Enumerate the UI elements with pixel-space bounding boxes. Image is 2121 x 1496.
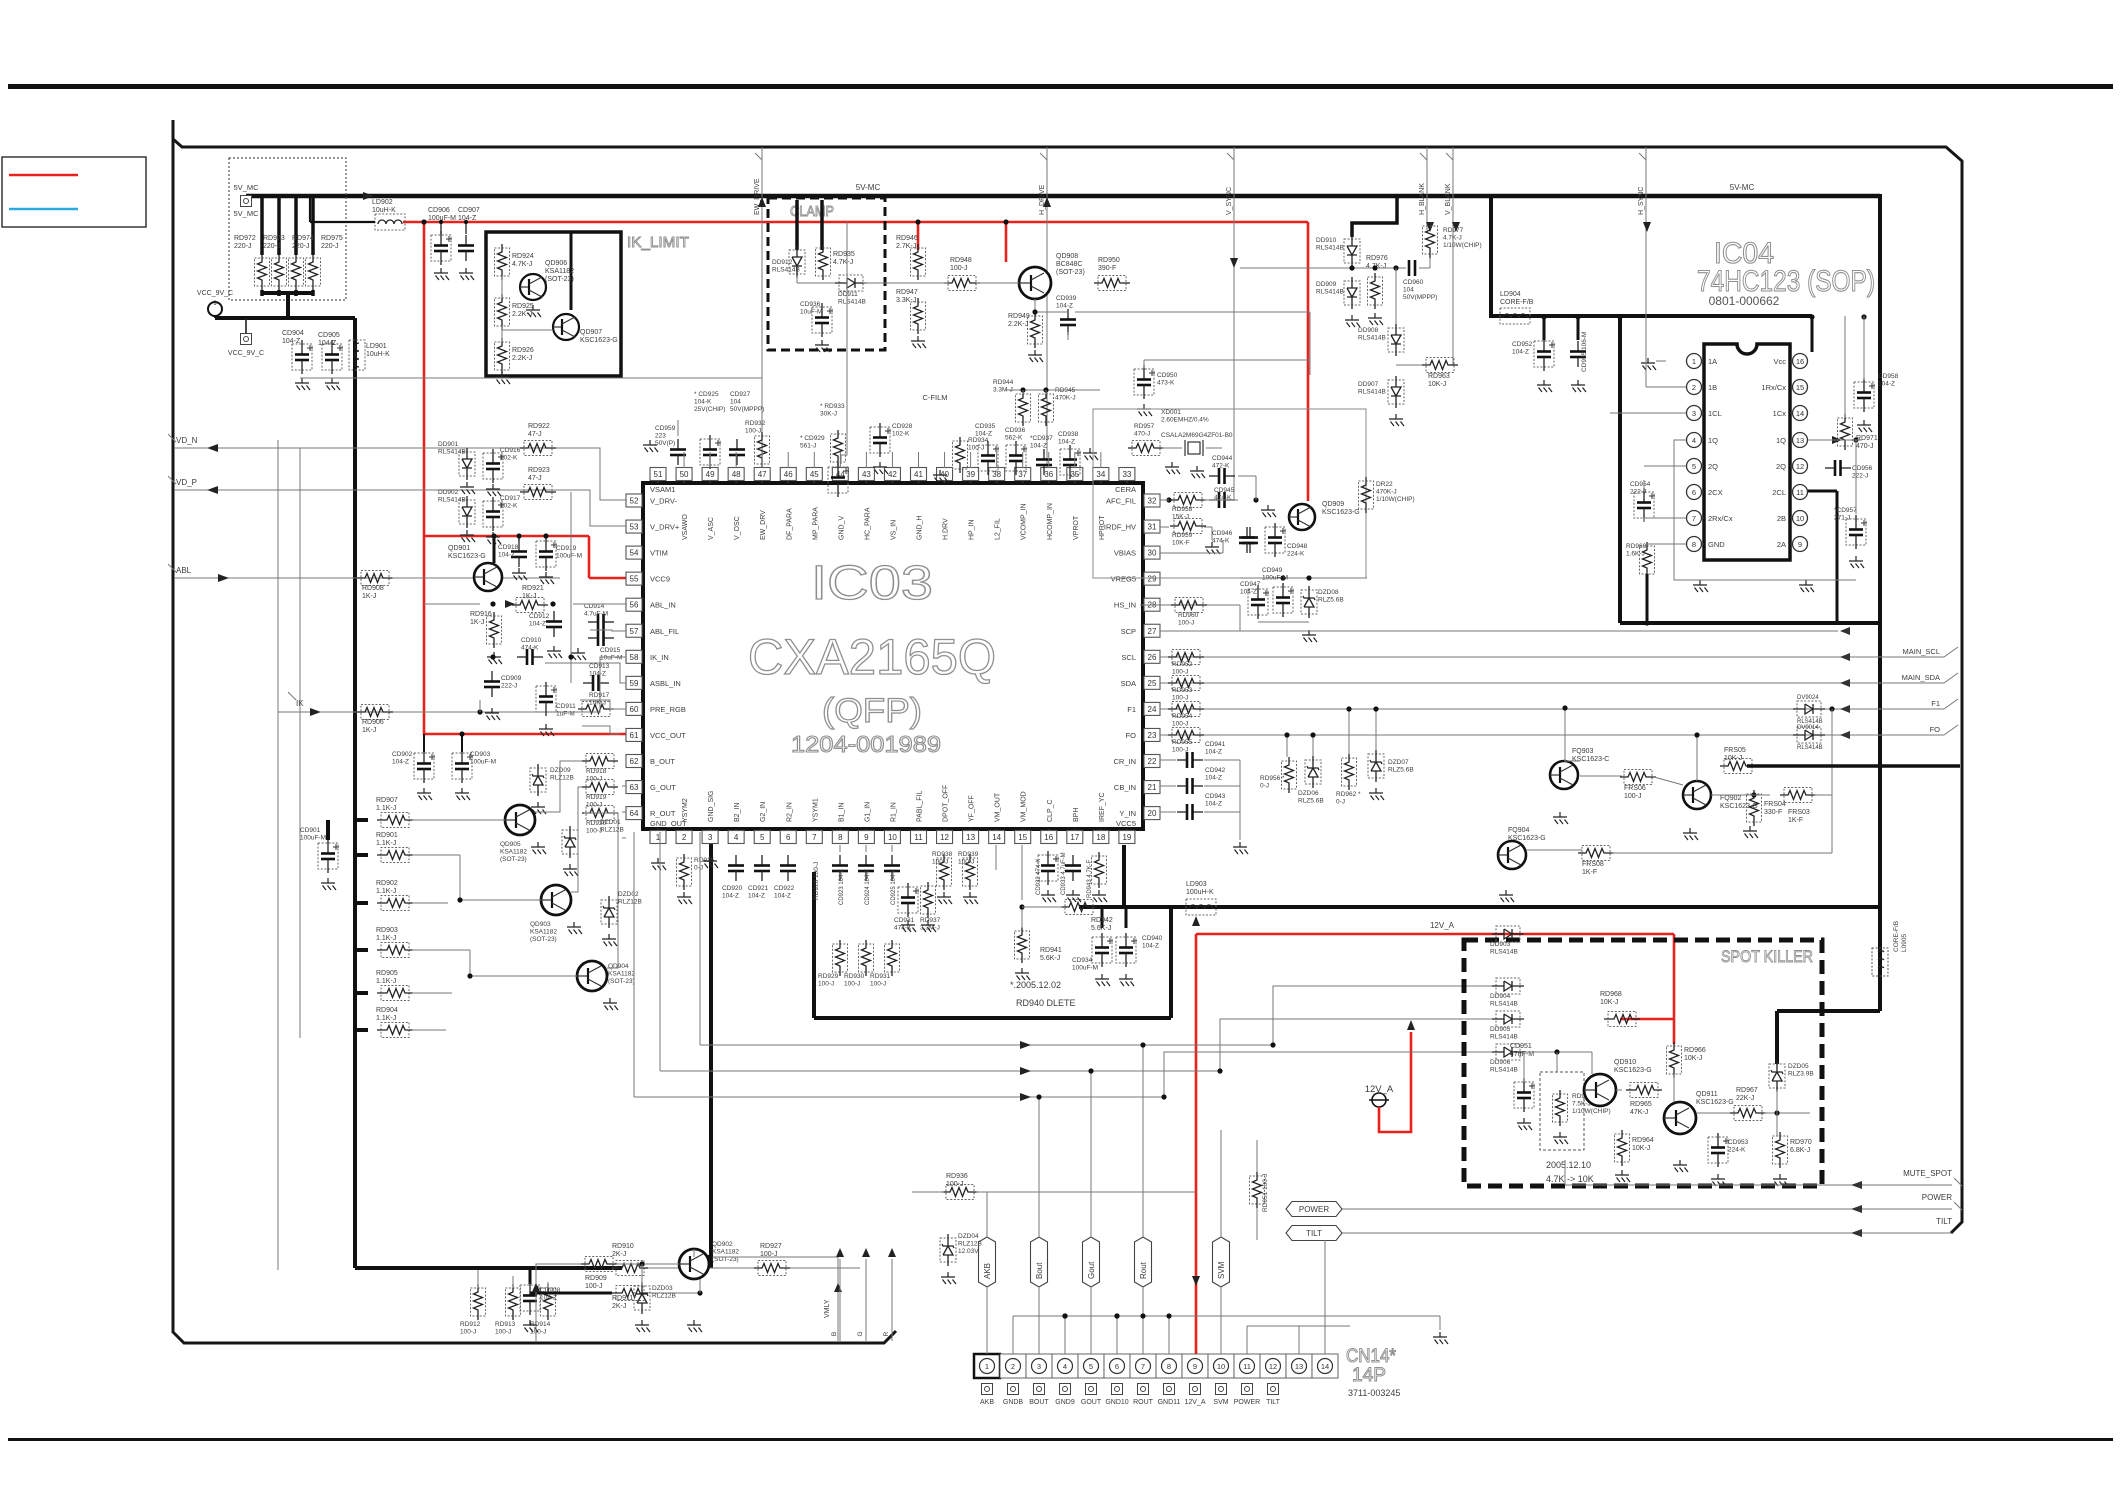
- svg-text:104-Z: 104-Z: [529, 621, 546, 628]
- svg-text:50V(MPPP): 50V(MPPP): [1403, 294, 1437, 301]
- svg-text:11: 11: [1796, 488, 1804, 497]
- svg-text:104-Z: 104-Z: [540, 1295, 557, 1302]
- svg-text:RLS414B: RLS414B: [438, 449, 466, 456]
- svg-text:PRE_RGB: PRE_RGB: [650, 705, 686, 714]
- svg-text:12: 12: [940, 833, 949, 842]
- svg-text:EW_DRIVE: EW_DRIVE: [754, 178, 761, 215]
- svg-text:FQ902: FQ902: [1720, 795, 1742, 802]
- svg-text:2: 2: [1011, 1362, 1015, 1371]
- svg-text:IC03: IC03: [811, 557, 933, 610]
- svg-text:CORE-F/B: CORE-F/B: [1893, 921, 1900, 952]
- svg-text:CD938: CD938: [1058, 431, 1079, 438]
- svg-text:CD952: CD952: [1512, 341, 1533, 348]
- svg-text:CD912: CD912: [529, 613, 550, 620]
- svg-text:DZD08: DZD08: [1318, 589, 1339, 596]
- svg-text:SCL: SCL: [1121, 653, 1136, 662]
- svg-text:2.60EMHZ/0.4%: 2.60EMHZ/0.4%: [1161, 417, 1209, 424]
- svg-text:27: 27: [1148, 627, 1157, 636]
- svg-text:104-Z: 104-Z: [1056, 303, 1073, 310]
- svg-text:2K-J: 2K-J: [612, 1251, 626, 1258]
- svg-text:CD909: CD909: [501, 675, 522, 682]
- svg-text:56: 56: [630, 601, 639, 610]
- svg-text:VCC_9V_C: VCC_9V_C: [228, 350, 264, 357]
- svg-text:12: 12: [1796, 462, 1804, 471]
- svg-text:VCC_9V_C: VCC_9V_C: [197, 290, 233, 297]
- svg-text:F1: F1: [1127, 705, 1136, 714]
- svg-text:2005.12.10: 2005.12.10: [1546, 1160, 1591, 1170]
- svg-text:100uF-M: 100uF-M: [1262, 575, 1288, 582]
- svg-text:14: 14: [1796, 409, 1804, 418]
- svg-text:VD_N: VD_N: [176, 436, 198, 445]
- svg-text:2Rx/Cx: 2Rx/Cx: [1708, 514, 1733, 523]
- svg-text:561-J: 561-J: [800, 443, 816, 450]
- svg-text:0-J: 0-J: [1336, 799, 1345, 806]
- svg-text:8: 8: [1167, 1362, 1171, 1371]
- svg-text:100-J: 100-J: [1172, 721, 1188, 728]
- svg-text:FQ903: FQ903: [1572, 748, 1594, 755]
- svg-text:VS_IN: VS_IN: [890, 520, 897, 540]
- svg-text:472-K: 472-K: [1212, 463, 1230, 470]
- svg-text:DZD02: DZD02: [618, 891, 639, 898]
- svg-text:470-J: 470-J: [1134, 431, 1150, 438]
- svg-text:RD968: RD968: [1600, 991, 1622, 998]
- svg-text:RD975: RD975: [321, 235, 343, 242]
- svg-text:1.1K-J: 1.1K-J: [376, 805, 396, 812]
- svg-text:SPOT KILLER: SPOT KILLER: [1721, 947, 1813, 966]
- svg-text:104-Z: 104-Z: [1205, 775, 1222, 782]
- svg-text:104-Z: 104-Z: [498, 552, 515, 559]
- svg-text:H_SYNC: H_SYNC: [1638, 187, 1645, 215]
- svg-text:54: 54: [630, 549, 639, 558]
- svg-text:RD938: RD938: [932, 851, 953, 858]
- svg-text:100uF-M: 100uF-M: [300, 835, 326, 842]
- svg-text:220-J: 220-J: [234, 243, 252, 250]
- svg-text:100uH-K: 100uH-K: [1186, 889, 1214, 896]
- svg-text:470K-J: 470K-J: [1055, 395, 1076, 402]
- svg-text:RD950: RD950: [1098, 257, 1120, 264]
- svg-text:20: 20: [1148, 809, 1157, 818]
- svg-text:10uF-M: 10uF-M: [800, 309, 822, 316]
- svg-text:6: 6: [786, 833, 791, 842]
- svg-text:DD905: DD905: [1490, 1026, 1511, 1033]
- svg-text:RD922: RD922: [528, 423, 550, 430]
- svg-text:3: 3: [1692, 409, 1696, 418]
- svg-text:23: 23: [1148, 731, 1157, 740]
- svg-text:YF_OFF: YF_OFF: [969, 795, 976, 822]
- svg-text:10: 10: [888, 833, 897, 842]
- svg-text:2A: 2A: [1777, 540, 1786, 549]
- svg-text:V_BLANK: V_BLANK: [1445, 183, 1452, 215]
- svg-text:CD934: CD934: [1072, 957, 1093, 964]
- svg-text:DD906: DD906: [1490, 1059, 1511, 1066]
- svg-text:RLZ12B: RLZ12B: [618, 899, 642, 906]
- svg-text:RD927: RD927: [760, 1243, 782, 1250]
- svg-text:SVM: SVM: [1217, 1261, 1226, 1279]
- svg-text:100-J: 100-J: [460, 1329, 476, 1336]
- svg-text:10uH-K: 10uH-K: [372, 207, 396, 214]
- svg-text:RD909: RD909: [585, 1275, 607, 1282]
- svg-text:42: 42: [888, 470, 897, 479]
- svg-text:11: 11: [1243, 1362, 1251, 1371]
- svg-text:100-J: 100-J: [1172, 669, 1188, 676]
- svg-text:DV9014: DV9014: [1797, 725, 1819, 731]
- svg-text:14: 14: [1321, 1362, 1329, 1371]
- svg-text:100-J: 100-J: [745, 428, 761, 435]
- svg-text:RD967: RD967: [1736, 1087, 1758, 1094]
- svg-text:QD909: QD909: [1322, 501, 1344, 508]
- svg-text:CSALA2M69G4ZF01-B0: CSALA2M69G4ZF01-B0: [1161, 432, 1233, 439]
- svg-text:390-F: 390-F: [1098, 265, 1116, 272]
- svg-text:G_OUT: G_OUT: [650, 783, 676, 792]
- svg-text:RD958: RD958: [1172, 506, 1193, 513]
- svg-text:VD_P: VD_P: [176, 478, 197, 487]
- svg-text:RLS414B: RLS414B: [838, 299, 866, 306]
- svg-text:13: 13: [966, 833, 975, 842]
- svg-text:RD924: RD924: [512, 253, 534, 260]
- svg-text:3.3K-J: 3.3K-J: [896, 297, 916, 304]
- svg-text:CD913: CD913: [589, 663, 610, 670]
- svg-text:271-J: 271-J: [1834, 515, 1850, 522]
- svg-text:QD907: QD907: [580, 329, 602, 336]
- svg-text:1K-F: 1K-F: [1582, 869, 1597, 876]
- svg-text:RD952: RD952: [1172, 661, 1193, 668]
- svg-text:41: 41: [914, 470, 923, 479]
- svg-text:4.7K-J: 4.7K-J: [512, 261, 532, 268]
- svg-text:49: 49: [706, 470, 715, 479]
- svg-text:104-Z: 104-Z: [774, 893, 791, 900]
- svg-text:QD901: QD901: [448, 545, 470, 552]
- svg-text:RD957: RD957: [1134, 423, 1155, 430]
- svg-text:V_SYNC: V_SYNC: [1226, 187, 1233, 215]
- svg-text:RD936: RD936: [946, 1173, 968, 1180]
- svg-text:51: 51: [654, 470, 663, 479]
- svg-text:2Q: 2Q: [1776, 462, 1786, 471]
- svg-text:GND11: GND11: [1158, 1399, 1181, 1406]
- svg-text:5.6K-J: 5.6K-J: [1091, 925, 1111, 932]
- svg-text:DF_PARA: DF_PARA: [786, 508, 793, 540]
- svg-text:CD951: CD951: [1510, 1043, 1532, 1050]
- svg-text:5V_MC: 5V_MC: [233, 209, 259, 218]
- svg-text:VREG5: VREG5: [1111, 575, 1136, 584]
- svg-text:4: 4: [1063, 1362, 1067, 1371]
- svg-text:B_OUT: B_OUT: [650, 757, 675, 766]
- svg-text:30: 30: [1148, 549, 1157, 558]
- svg-text:RD966: RD966: [1684, 1047, 1706, 1054]
- svg-text:QD906: QD906: [545, 260, 567, 267]
- svg-text:RD902: RD902: [376, 880, 398, 887]
- svg-text:100-J: 100-J: [495, 1329, 511, 1336]
- svg-text:GND: GND: [1708, 540, 1725, 549]
- svg-text:H_DRIVE: H_DRIVE: [1039, 184, 1046, 215]
- svg-text:RD928 100-J: RD928 100-J: [813, 862, 820, 900]
- svg-text:CERA: CERA: [1115, 485, 1136, 494]
- svg-text:102-K: 102-K: [892, 431, 910, 438]
- svg-text:1CL: 1CL: [1708, 409, 1722, 418]
- svg-text:4: 4: [1692, 436, 1696, 445]
- svg-text:1Cx: 1Cx: [1773, 409, 1787, 418]
- svg-text:46: 46: [784, 470, 793, 479]
- svg-text:GND9: GND9: [1055, 1399, 1075, 1406]
- svg-text:DD912: DD912: [772, 259, 793, 266]
- svg-text:CXA2165Q: CXA2165Q: [748, 629, 996, 685]
- svg-text:H.DRV: H.DRV: [943, 518, 950, 540]
- svg-text:BC848C: BC848C: [1056, 261, 1082, 268]
- svg-text:FO: FO: [1126, 731, 1137, 740]
- svg-text:RD913: RD913: [495, 1321, 516, 1328]
- svg-text:RD964: RD964: [1632, 1137, 1654, 1144]
- svg-text:RD942: RD942: [1091, 917, 1113, 924]
- svg-text:104-K: 104-K: [694, 399, 712, 406]
- svg-text:RD953: RD953: [1172, 687, 1193, 694]
- svg-text:CD907: CD907: [458, 207, 480, 214]
- svg-text:50: 50: [680, 470, 689, 479]
- svg-text:RD973: RD973: [263, 235, 285, 242]
- svg-text:VSAM1: VSAM1: [650, 485, 675, 494]
- svg-text:H_BLANK: H_BLANK: [1419, 183, 1426, 215]
- svg-text:RD932: RD932: [745, 420, 766, 427]
- svg-text:*CD937: *CD937: [1030, 435, 1053, 442]
- svg-text:PABL_FIL: PABL_FIL: [917, 791, 924, 822]
- svg-text:V_OSC: V_OSC: [734, 516, 741, 540]
- svg-text:RD905: RD905: [376, 970, 398, 977]
- svg-text:CD921: CD921: [748, 885, 769, 892]
- svg-text:CD955 106-M: CD955 106-M: [1581, 332, 1588, 372]
- svg-text:10: 10: [1796, 514, 1804, 523]
- svg-text:FRS05: FRS05: [1724, 747, 1746, 754]
- svg-text:RD972: RD972: [234, 235, 256, 242]
- svg-text:9: 9: [1798, 540, 1802, 549]
- svg-text:CD941: CD941: [1205, 741, 1226, 748]
- svg-text:10K-J: 10K-J: [589, 700, 606, 707]
- svg-text:R2_IN: R2_IN: [786, 802, 793, 822]
- svg-text:25V(CHIP): 25V(CHIP): [694, 406, 725, 413]
- svg-text:104-Z: 104-Z: [748, 893, 765, 900]
- svg-text:104-Z: 104-Z: [975, 431, 992, 438]
- svg-text:ABL_IN: ABL_IN: [650, 601, 676, 610]
- svg-text:CD920: CD920: [722, 885, 743, 892]
- svg-text:473-K: 473-K: [1157, 380, 1175, 387]
- svg-text:1/10W(CHIP): 1/10W(CHIP): [1376, 496, 1415, 503]
- svg-text:RD916: RD916: [470, 611, 492, 618]
- svg-text:RLZ5.6B: RLZ5.6B: [1318, 597, 1344, 604]
- svg-text:1B: 1B: [1708, 383, 1717, 392]
- svg-text:10uF-M: 10uF-M: [600, 655, 622, 662]
- svg-text:XD001: XD001: [1161, 409, 1181, 416]
- svg-text:52: 52: [630, 497, 639, 506]
- svg-text:V_DRV-: V_DRV-: [650, 497, 677, 506]
- svg-text:RD920: RD920: [586, 820, 607, 827]
- svg-text:DD902: DD902: [438, 489, 459, 496]
- svg-text:474-K: 474-K: [1212, 538, 1230, 545]
- svg-text:RD949: RD949: [1008, 313, 1030, 320]
- svg-text:RD912: RD912: [460, 1321, 481, 1328]
- svg-text:CB_IN: CB_IN: [1114, 783, 1136, 792]
- svg-text:HP_IN: HP_IN: [969, 519, 976, 540]
- svg-text:VPROT: VPROT: [1073, 515, 1080, 540]
- svg-text:1: 1: [1692, 357, 1696, 366]
- svg-text:10K-J: 10K-J: [1600, 999, 1618, 1006]
- svg-text:ROUT: ROUT: [1133, 1399, 1154, 1406]
- svg-text:10K-J: 10K-J: [1724, 755, 1742, 762]
- svg-text:RD955: RD955: [1172, 739, 1193, 746]
- svg-text:GND10: GND10: [1105, 1399, 1128, 1406]
- svg-text:SCP: SCP: [1121, 627, 1136, 636]
- svg-text:RD934: RD934: [968, 437, 989, 444]
- svg-text:RD930: RD930: [844, 973, 865, 980]
- svg-text:224-K: 224-K: [1728, 1147, 1746, 1154]
- svg-text:100-J: 100-J: [958, 859, 974, 866]
- svg-text:562-K: 562-K: [1005, 435, 1023, 442]
- svg-text:RD970: RD970: [1790, 1139, 1812, 1146]
- svg-text:1/10W(CHIP): 1/10W(CHIP): [1443, 242, 1482, 249]
- svg-text:61: 61: [630, 731, 639, 740]
- svg-text:45: 45: [810, 470, 819, 479]
- svg-text:Vcc: Vcc: [1773, 357, 1786, 366]
- svg-text:DD910: DD910: [1316, 237, 1337, 244]
- svg-text:CD927: CD927: [730, 391, 751, 398]
- svg-text:47K-J: 47K-J: [1630, 1109, 1648, 1116]
- svg-text:8: 8: [1692, 540, 1696, 549]
- svg-text:DZD06: DZD06: [1298, 790, 1319, 797]
- svg-text:10K-J: 10K-J: [1632, 1145, 1650, 1152]
- svg-text:10K-J: 10K-J: [1684, 1055, 1702, 1062]
- svg-text:CD936: CD936: [1005, 427, 1026, 434]
- svg-text:1.1K-J: 1.1K-J: [376, 978, 396, 985]
- svg-text:CN14*: CN14*: [1346, 1346, 1397, 1367]
- svg-text:1K-J: 1K-J: [522, 593, 536, 600]
- svg-text:L0905: L0905: [1901, 934, 1908, 952]
- svg-text:0-J: 0-J: [694, 865, 703, 872]
- svg-text:1/10W(CHIP): 1/10W(CHIP): [1572, 1108, 1611, 1115]
- svg-text:17: 17: [1070, 833, 1079, 842]
- svg-text:*CD957: *CD957: [1834, 507, 1857, 514]
- svg-text:RD911: RD911: [612, 1295, 633, 1302]
- svg-text:KSC1623-C: KSC1623-C: [1572, 756, 1609, 763]
- svg-text:POWER: POWER: [1922, 1193, 1952, 1202]
- svg-text:Gout: Gout: [1087, 1261, 1096, 1279]
- svg-text:HCOMP_IN: HCOMP_IN: [1047, 503, 1054, 540]
- svg-text:SVM: SVM: [1213, 1399, 1228, 1406]
- svg-text:KSA1182: KSA1182: [530, 929, 557, 936]
- svg-text:104: 104: [1403, 287, 1414, 294]
- svg-text:RD956 *: RD956 *: [1260, 775, 1285, 782]
- svg-text:18: 18: [1096, 833, 1105, 842]
- svg-text:GND_V: GND_V: [838, 516, 845, 540]
- svg-text:AKB: AKB: [980, 1399, 994, 1406]
- svg-text:VCC_OUT: VCC_OUT: [650, 731, 686, 740]
- svg-text:14P: 14P: [1352, 1365, 1386, 1386]
- svg-text:Bout: Bout: [1035, 1262, 1044, 1279]
- svg-text:0801-000662: 0801-000662: [1709, 294, 1780, 308]
- svg-text:CD954: CD954: [1630, 481, 1651, 488]
- svg-text:RD965: RD965: [1630, 1101, 1652, 1108]
- svg-text:DZD07: DZD07: [1388, 759, 1409, 766]
- svg-text:DV9024: DV9024: [1797, 695, 1819, 701]
- svg-text:VBIAS: VBIAS: [1114, 549, 1136, 558]
- svg-text:BOUT: BOUT: [1029, 1399, 1049, 1406]
- svg-text:10K-F: 10K-F: [1172, 540, 1190, 547]
- svg-text:KSA1182: KSA1182: [608, 971, 635, 978]
- svg-text:7: 7: [812, 833, 817, 842]
- svg-text:16: 16: [1796, 357, 1804, 366]
- svg-text:13: 13: [1295, 1362, 1303, 1371]
- svg-text:1.1K-J: 1.1K-J: [376, 1015, 396, 1022]
- svg-text:VMLY: VMLY: [824, 1299, 831, 1318]
- svg-text:KSA1182: KSA1182: [500, 849, 527, 856]
- svg-text:VSAWO: VSAWO: [682, 514, 689, 540]
- svg-text:224-K: 224-K: [1287, 551, 1305, 558]
- svg-text:1.1K-J: 1.1K-J: [376, 840, 396, 847]
- svg-text:FRS04: FRS04: [1764, 801, 1786, 808]
- svg-text:MP_PARA: MP_PARA: [812, 507, 819, 540]
- svg-text:CD940: CD940: [1142, 935, 1163, 942]
- svg-text:FRS08: FRS08: [1582, 861, 1604, 868]
- svg-text:IK_IN: IK_IN: [650, 653, 669, 662]
- svg-text:RD951 100-J: RD951 100-J: [1262, 1174, 1269, 1212]
- svg-text:RD910: RD910: [612, 1243, 634, 1250]
- svg-text:3: 3: [1037, 1362, 1041, 1371]
- svg-text:LD902: LD902: [372, 199, 393, 206]
- svg-text:CORE-F/B: CORE-F/B: [1500, 299, 1534, 306]
- svg-text:22: 22: [1148, 757, 1157, 766]
- svg-text:3: 3: [708, 833, 713, 842]
- svg-text:104-Z: 104-Z: [1205, 801, 1222, 808]
- svg-text:CD946: CD946: [1212, 530, 1233, 537]
- svg-text:LD904: LD904: [1500, 291, 1521, 298]
- svg-text:QD905: QD905: [500, 841, 521, 848]
- svg-text:CD931: CD931: [894, 917, 915, 924]
- svg-text:RD962 *: RD962 *: [1336, 791, 1361, 798]
- svg-text:GNDB: GNDB: [1003, 1399, 1024, 1406]
- svg-text:FO: FO: [1930, 725, 1941, 734]
- svg-text:DD903: DD903: [1490, 941, 1511, 948]
- svg-text:IREF_YC: IREF_YC: [1099, 792, 1106, 822]
- svg-text:59: 59: [630, 679, 639, 688]
- svg-text:CD905: CD905: [318, 332, 340, 339]
- svg-text:3711-003245: 3711-003245: [1348, 1388, 1400, 1398]
- svg-text:12V_A: 12V_A: [1184, 1399, 1205, 1406]
- svg-text:1Q: 1Q: [1776, 436, 1786, 445]
- svg-text:VCOMP_IN: VCOMP_IN: [1021, 503, 1028, 540]
- svg-text:LD901: LD901: [366, 343, 387, 350]
- svg-text:QD903: QD903: [530, 921, 551, 928]
- svg-text:RLZ12B: RLZ12B: [652, 1293, 676, 1300]
- svg-text:RLS414B: RLS414B: [1316, 245, 1344, 252]
- svg-text:CD932 474-K: CD932 474-K: [1036, 859, 1042, 895]
- svg-text:TILT: TILT: [1266, 1399, 1281, 1406]
- svg-text:12: 12: [1269, 1362, 1277, 1371]
- svg-text:2: 2: [682, 833, 687, 842]
- svg-text:MAIN_SDA: MAIN_SDA: [1902, 673, 1940, 682]
- svg-text:RD941: RD941: [1040, 947, 1062, 954]
- svg-text:5: 5: [1692, 462, 1696, 471]
- svg-text:RLS414B: RLS414B: [1490, 1067, 1518, 1074]
- svg-text:CD928: CD928: [892, 423, 913, 430]
- svg-text:24: 24: [1148, 705, 1157, 714]
- svg-text:1Q: 1Q: [1708, 436, 1718, 445]
- svg-text:10K-J: 10K-J: [1428, 381, 1446, 388]
- svg-text:KSC1623-G: KSC1623-G: [1322, 509, 1360, 516]
- svg-text:V_DRV+: V_DRV+: [650, 523, 680, 532]
- svg-text:CD942: CD942: [1205, 767, 1226, 774]
- svg-text:8: 8: [838, 833, 843, 842]
- svg-text:RD921: RD921: [522, 585, 544, 592]
- svg-text:FRS03: FRS03: [1788, 809, 1810, 816]
- svg-text:470-J: 470-J: [1856, 443, 1874, 450]
- svg-text:QD902: QD902: [712, 1241, 733, 1248]
- svg-text:KSC1623-G: KSC1623-G: [448, 553, 486, 560]
- svg-text:CD949: CD949: [1262, 567, 1283, 574]
